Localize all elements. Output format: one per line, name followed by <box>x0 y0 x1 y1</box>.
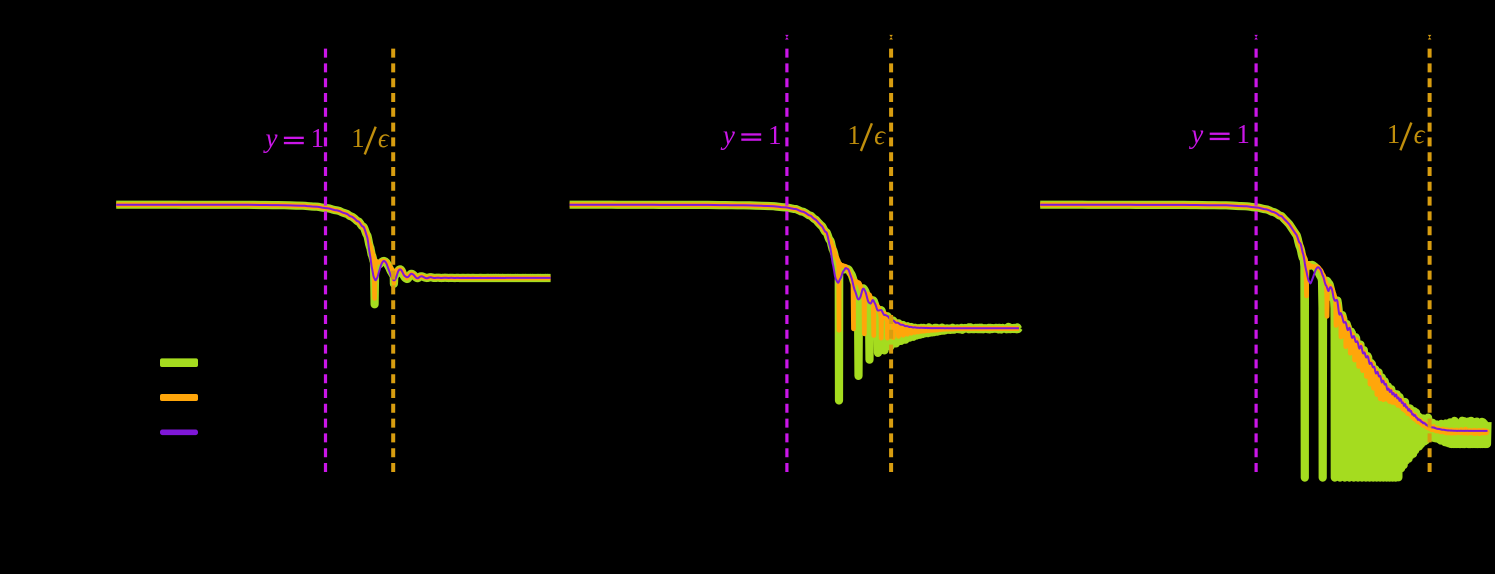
legend green line swatch <box>160 358 198 367</box>
panel 1 orange curve <box>116 205 550 299</box>
svg-text:ϵ: ϵ <box>378 123 390 153</box>
svg-text:1: 1 <box>311 123 325 153</box>
svg-text:1: 1 <box>351 123 365 153</box>
svg-text:1: 1 <box>847 120 861 150</box>
svg-text:y: y <box>263 123 278 153</box>
panel 2 label 1/eps <box>847 120 886 151</box>
svg-text:y: y <box>720 120 735 150</box>
svg-text:ϵ: ϵ <box>874 120 886 150</box>
legend orange line swatch <box>160 394 198 401</box>
panel 2 purple curve (smooth solution) <box>570 205 1019 329</box>
panel 2 orange dashed vertical line 1/eps <box>889 49 893 474</box>
panel 1 green curve (oscillatory numerical solution) <box>116 205 550 305</box>
tiny marker above dashed line <box>1428 35 1432 40</box>
panel 1 magenta dashed vertical line y=1 <box>324 49 327 474</box>
tiny marker above dashed line <box>785 35 789 40</box>
legend purple line swatch <box>160 430 198 436</box>
svg-text:ϵ: ϵ <box>1414 119 1426 149</box>
panel 2 label y = 1 <box>720 120 782 150</box>
panel 2 magenta dashed vertical line y=1 <box>785 49 788 474</box>
panel 3 label y = 1 <box>1188 119 1250 149</box>
panel 1 orange dashed vertical line 1/eps <box>391 49 395 474</box>
panel 3 orange dashed vertical line 1/eps <box>1428 49 1432 474</box>
svg-text:1: 1 <box>768 120 782 150</box>
panel 2 orange curve <box>570 205 1019 338</box>
panel 3 green curve (oscillatory numerical solution) <box>1040 205 1487 478</box>
panel 1 label 1/eps <box>351 123 390 154</box>
panel 3 purple curve (smooth solution) <box>1040 205 1487 431</box>
svg-text:1: 1 <box>1236 119 1250 149</box>
tiny marker above dashed line <box>889 35 893 40</box>
panel 1 label y = 1 <box>263 123 325 153</box>
panel 3 label 1/eps <box>1387 119 1426 150</box>
panel 2 green curve (oscillatory numerical solution) <box>570 205 1019 401</box>
panel 1 purple curve (smooth solution) <box>116 205 550 281</box>
panel 3 orange curve <box>1040 205 1487 434</box>
panel 3 magenta dashed vertical line y=1 <box>1254 49 1257 474</box>
svg-text:1: 1 <box>1387 119 1401 149</box>
svg-text:y: y <box>1188 119 1203 149</box>
tiny marker above dashed line <box>1254 35 1258 40</box>
